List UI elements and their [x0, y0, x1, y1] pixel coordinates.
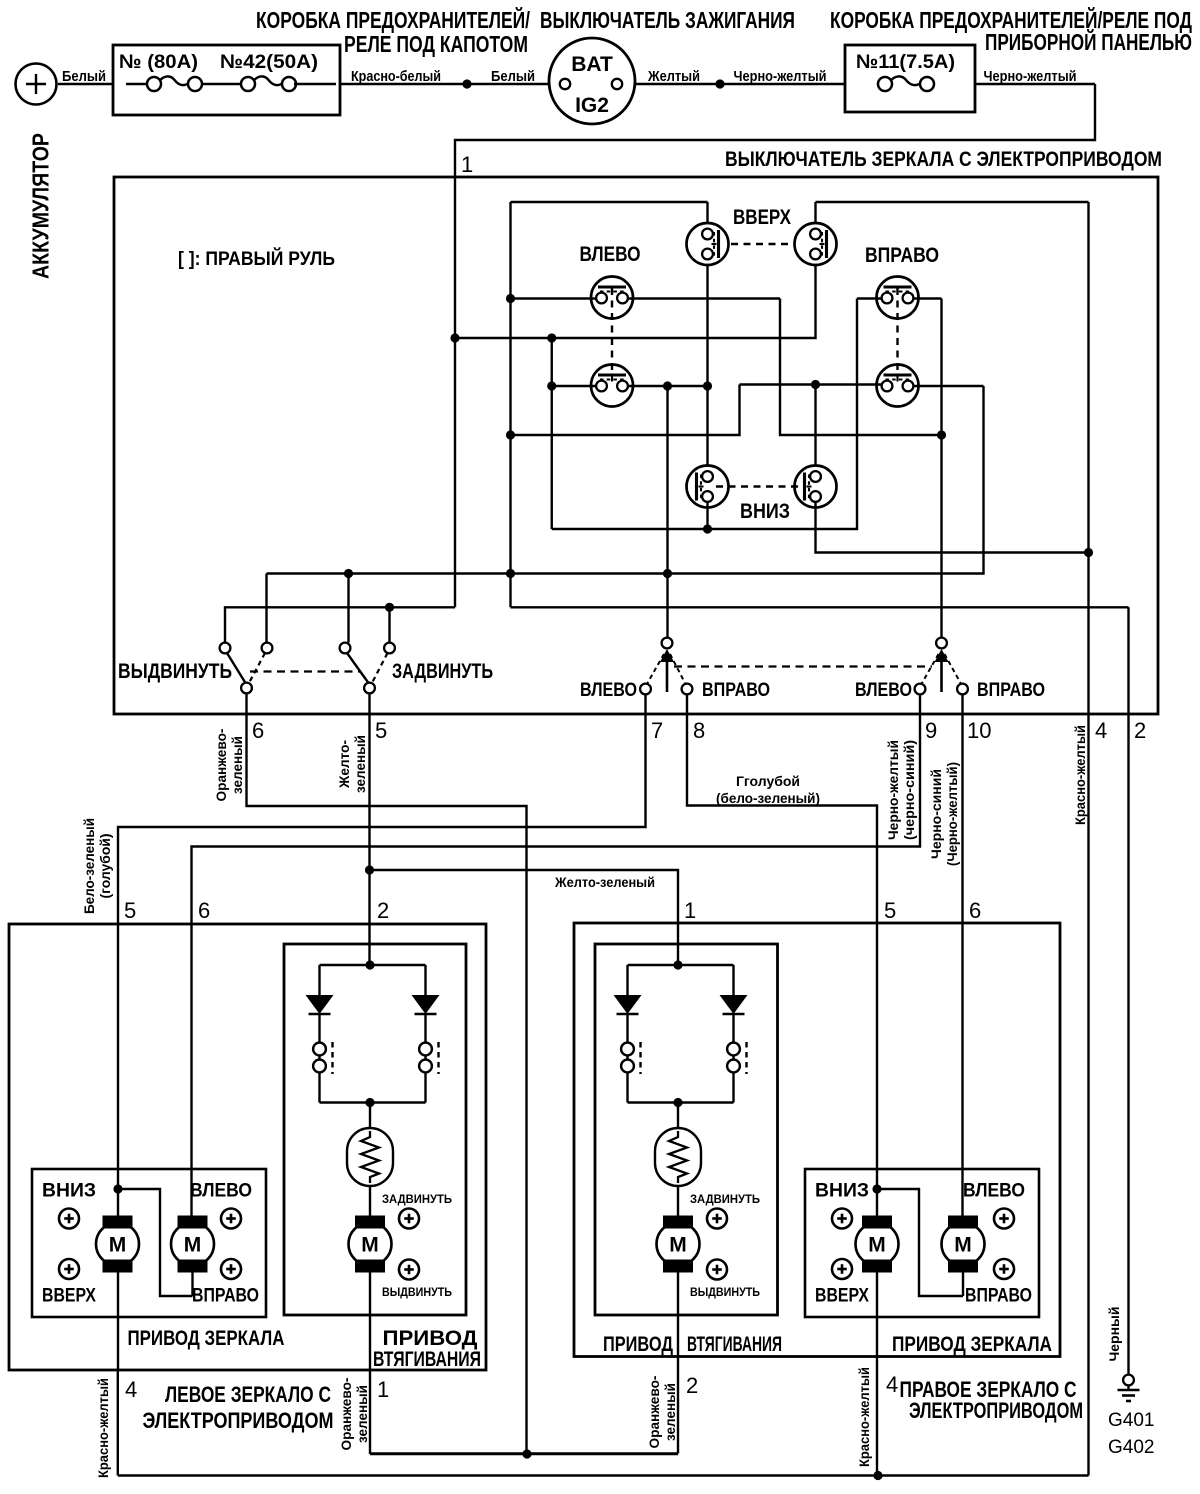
svg-text:4: 4 — [886, 1372, 898, 1397]
svg-text:(черно-синий): (черно-синий) — [901, 740, 917, 840]
svg-text:1: 1 — [684, 898, 696, 923]
svg-text:Черно-желтый: Черно-желтый — [885, 740, 901, 840]
svg-text:G401: G401 — [1108, 1410, 1154, 1431]
svg-text:2: 2 — [686, 1373, 698, 1398]
svg-text:ВНИЗ: ВНИЗ — [740, 500, 790, 523]
svg-text:№11(7.5А): №11(7.5А) — [856, 51, 955, 73]
svg-text:4: 4 — [125, 1377, 137, 1402]
svg-text:РЕЛЕ ПОД КАПОТОМ: РЕЛЕ ПОД КАПОТОМ — [344, 31, 528, 57]
svg-text:(голубой): (голубой) — [97, 834, 113, 899]
svg-text:2: 2 — [377, 898, 389, 923]
svg-text:4: 4 — [1095, 718, 1107, 743]
svg-text:ЭЛЕКТРОПРИВОДОМ: ЭЛЕКТРОПРИВОДОМ — [143, 1408, 334, 1433]
svg-text:(Черно-желтый): (Черно-желтый) — [944, 762, 960, 866]
svg-text:6: 6 — [969, 898, 981, 923]
svg-text:АККУМУЛЯТОР: АККУМУЛЯТОР — [27, 133, 53, 279]
svg-text:ЛЕВОЕ ЗЕРКАЛО С: ЛЕВОЕ ЗЕРКАЛО С — [165, 1382, 331, 1407]
svg-text:Бело-зеленый: Бело-зеленый — [81, 818, 97, 914]
svg-text:ВТЯГИВАНИЯ: ВТЯГИВАНИЯ — [687, 1332, 782, 1356]
svg-text:M: M — [669, 1234, 687, 1257]
svg-text:ЗАДВИНУТЬ: ЗАДВИНУТЬ — [392, 659, 493, 683]
svg-text:M: M — [184, 1234, 202, 1257]
svg-text:(бело-зеленый): (бело-зеленый) — [716, 790, 820, 806]
svg-text:Черно-желтый: Черно-желтый — [984, 68, 1077, 85]
svg-text:ВНИЗ: ВНИЗ — [815, 1180, 869, 1202]
svg-text:ВЛЕВО: ВЛЕВО — [580, 243, 641, 266]
svg-text:2: 2 — [1134, 718, 1146, 743]
svg-text:ВВЕРХ: ВВЕРХ — [733, 206, 791, 229]
svg-text:Черный: Черный — [1106, 1307, 1122, 1362]
svg-text:M: M — [868, 1234, 886, 1257]
svg-text:M: M — [361, 1234, 379, 1257]
svg-text:[ ]: ПРАВЫЙ РУЛЬ: [ ]: ПРАВЫЙ РУЛЬ — [178, 248, 335, 270]
svg-text:Красно-желтый: Красно-желтый — [95, 1378, 111, 1478]
svg-text:ВЫКЛЮЧАТЕЛЬ ЗЕРКАЛА С ЭЛЕКТРОП: ВЫКЛЮЧАТЕЛЬ ЗЕРКАЛА С ЭЛЕКТРОПРИВОДОМ — [725, 148, 1162, 171]
svg-text:5: 5 — [375, 718, 387, 743]
svg-text:8: 8 — [693, 718, 705, 743]
svg-text:Красно-желтый: Красно-желтый — [856, 1367, 872, 1467]
svg-text:6: 6 — [198, 898, 210, 923]
svg-text:10: 10 — [967, 718, 991, 743]
svg-text:ВВЕРХ: ВВЕРХ — [42, 1285, 96, 1307]
svg-text:Оранжево-: Оранжево- — [213, 728, 229, 801]
svg-text:ВЫДВИНУТЬ: ВЫДВИНУТЬ — [690, 1287, 760, 1299]
svg-text:ВТЯГИВАНИЯ: ВТЯГИВАНИЯ — [373, 1347, 481, 1371]
svg-text:зеленый: зеленый — [352, 735, 368, 793]
svg-text:ВЛЕВО: ВЛЕВО — [855, 680, 912, 701]
svg-text:Белый: Белый — [62, 68, 106, 85]
svg-text:КОРОБКА ПРЕДОХРАНИТЕЛЕЙ/: КОРОБКА ПРЕДОХРАНИТЕЛЕЙ/ — [256, 6, 530, 33]
svg-text:7: 7 — [651, 718, 663, 743]
svg-text:IG2: IG2 — [575, 94, 609, 117]
svg-text:Красно-белый: Красно-белый — [351, 68, 441, 85]
svg-text:ВВЕРХ: ВВЕРХ — [815, 1285, 869, 1307]
svg-text:Белый: Белый — [491, 68, 535, 85]
svg-text:1: 1 — [461, 152, 473, 177]
svg-text:Желто-: Желто- — [336, 740, 352, 789]
svg-text:Черно-синий: Черно-синий — [928, 769, 944, 859]
svg-text:5: 5 — [124, 898, 136, 923]
svg-text:ВПРАВО: ВПРАВО — [192, 1285, 259, 1307]
svg-text:зеленый: зеленый — [662, 1383, 678, 1441]
svg-text:6: 6 — [252, 718, 264, 743]
svg-text:ВЛЕВО: ВЛЕВО — [190, 1180, 252, 1202]
svg-text:ВЫДВИНУТЬ: ВЫДВИНУТЬ — [118, 659, 232, 683]
svg-text:1: 1 — [377, 1377, 389, 1402]
svg-text:ВПРАВО: ВПРАВО — [865, 244, 939, 267]
svg-text:BAT: BAT — [571, 53, 613, 76]
svg-text:ПРИВОД ЗЕРКАЛА: ПРИВОД ЗЕРКАЛА — [892, 1332, 1052, 1356]
svg-text:ПРИВОД ЗЕРКАЛА: ПРИВОД ЗЕРКАЛА — [128, 1326, 285, 1350]
svg-text:ВПРАВО: ВПРАВО — [977, 680, 1045, 701]
svg-text:зеленый: зеленый — [354, 1385, 370, 1443]
svg-text:M: M — [109, 1234, 127, 1257]
svg-text:M: M — [954, 1234, 972, 1257]
svg-text:ЭЛЕКТРОПРИВОДОМ: ЭЛЕКТРОПРИВОДОМ — [909, 1398, 1083, 1423]
svg-text:ВЛЕВО: ВЛЕВО — [580, 680, 637, 701]
svg-text:ЗАДВИНУТЬ: ЗАДВИНУТЬ — [690, 1194, 760, 1206]
svg-text:ЗАДВИНУТЬ: ЗАДВИНУТЬ — [382, 1194, 452, 1206]
svg-text:№ (80А): № (80А) — [119, 51, 198, 73]
svg-text:зеленый: зеленый — [229, 736, 245, 794]
svg-text:5: 5 — [884, 898, 896, 923]
svg-text:Гголубой: Гголубой — [736, 773, 800, 789]
svg-text:№42(50А): №42(50А) — [220, 51, 318, 73]
svg-text:Красно-желтый: Красно-желтый — [1072, 725, 1088, 825]
svg-text:Оранжево-: Оранжево- — [646, 1375, 662, 1448]
svg-text:ВПРАВО: ВПРАВО — [965, 1285, 1032, 1307]
svg-text:ВНИЗ: ВНИЗ — [42, 1180, 96, 1202]
svg-text:Желто-зеленый: Желто-зеленый — [554, 874, 655, 890]
svg-text:ВЫДВИНУТЬ: ВЫДВИНУТЬ — [382, 1287, 452, 1299]
svg-text:ПРИБОРНОЙ ПАНЕЛЬЮ: ПРИБОРНОЙ ПАНЕЛЬЮ — [985, 28, 1192, 55]
svg-text:9: 9 — [925, 718, 937, 743]
svg-text:Черно-желтый: Черно-желтый — [734, 68, 827, 85]
svg-text:ВЫКЛЮЧАТЕЛЬ ЗАЖИГАНИЯ: ВЫКЛЮЧАТЕЛЬ ЗАЖИГАНИЯ — [540, 7, 795, 33]
svg-text:Оранжево-: Оранжево- — [338, 1377, 354, 1450]
svg-text:ВЛЕВО: ВЛЕВО — [963, 1180, 1025, 1202]
svg-text:G402: G402 — [1108, 1437, 1154, 1458]
svg-text:ВПРАВО: ВПРАВО — [702, 680, 770, 701]
svg-text:Желтый: Желтый — [647, 68, 700, 85]
svg-text:ПРИВОД: ПРИВОД — [603, 1332, 673, 1356]
